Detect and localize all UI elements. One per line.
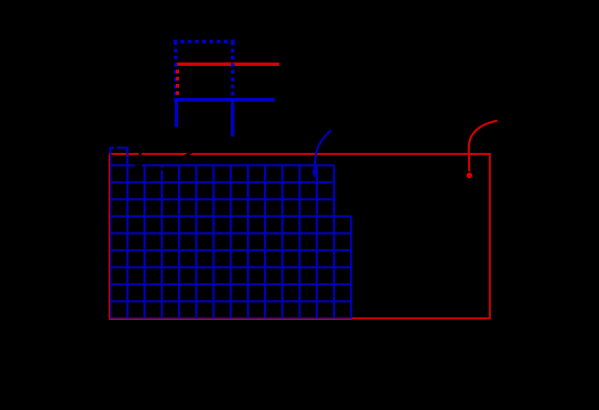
mesh: top-left tab cell above surface [110,148,127,166]
black annotation stroke crossing tab top edge (gap maker) [114,144,116,152]
red probe dot [466,173,472,179]
blue curved pointer arrow into mesh [314,130,330,171]
inset: dashed blue previous-position rectangle top edge [174,40,236,43]
mesh: step-extension right vertical line [350,216,352,318]
mesh: blue grid horizontal lines (upper narrow part) [110,165,334,199]
inset: dashed red vertical segment under red line [176,66,179,96]
black annotation nick on mesh vertical x=161.8 (gap maker) [160,169,165,170]
inset: solid blue left leg [175,100,178,127]
black annotation stroke breaking tank top edge at x~140 (gap maker) [140,150,141,159]
tank: red rectangle outline [110,154,490,318]
tank: red left edge showing through mesh edge (purple blend) [108,154,110,319]
blue arrowhead [312,171,317,179]
inset: solid blue right leg [231,100,234,137]
inset: solid red intermediate-level horizontal line [177,62,280,65]
mesh: blue grid vertical lines [110,165,334,318]
inset: dashed blue previous-position left vertical [174,42,177,98]
mesh: blue grid horizontal lines (lower wide part incl. step line) [110,216,351,318]
red curved pointer line to probe point [469,121,498,172]
tank: red bottom edge showing through mesh bottom line (purple blend) [109,318,352,320]
inset: dashed blue previous-position right vertical [231,42,234,98]
black annotation squiggle crossing mesh top line (gap maker) [135,162,141,167]
inset: solid blue current-level horizontal line [174,98,275,102]
black annotation diagonal notching tank top edge at x~189 (gap maker) [185,151,195,157]
